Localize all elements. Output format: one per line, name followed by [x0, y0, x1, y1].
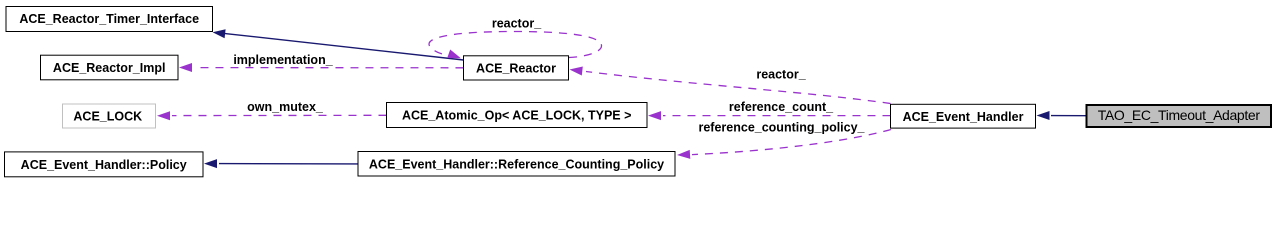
svg-text:TAO_EC_Timeout_Adapter: TAO_EC_Timeout_Adapter: [1098, 107, 1261, 123]
svg-text:reference_count_: reference_count_: [729, 100, 834, 114]
svg-text:reference_counting_policy_: reference_counting_policy_: [698, 121, 865, 135]
svg-text:ACE_Reactor: ACE_Reactor: [476, 61, 556, 75]
svg-text:ACE_Atomic_Op< ACE_LOCK, TYPE: ACE_Atomic_Op< ACE_LOCK, TYPE >: [402, 109, 631, 123]
svg-text:ACE_LOCK: ACE_LOCK: [73, 109, 142, 123]
svg-text:implementation_: implementation_: [233, 53, 333, 67]
svg-text:ACE_Event_Handler: ACE_Event_Handler: [903, 110, 1024, 124]
svg-text:reactor_: reactor_: [756, 67, 806, 81]
svg-text:ACE_Reactor_Impl: ACE_Reactor_Impl: [53, 61, 166, 75]
svg-text:own_mutex_: own_mutex_: [247, 100, 324, 114]
svg-text:reactor_: reactor_: [492, 16, 542, 30]
svg-text:ACE_Event_Handler::Reference_C: ACE_Event_Handler::Reference_Counting_Po…: [369, 157, 664, 171]
svg-text:ACE_Reactor_Timer_Interface: ACE_Reactor_Timer_Interface: [19, 12, 199, 26]
svg-text:ACE_Event_Handler::Policy: ACE_Event_Handler::Policy: [21, 158, 187, 172]
